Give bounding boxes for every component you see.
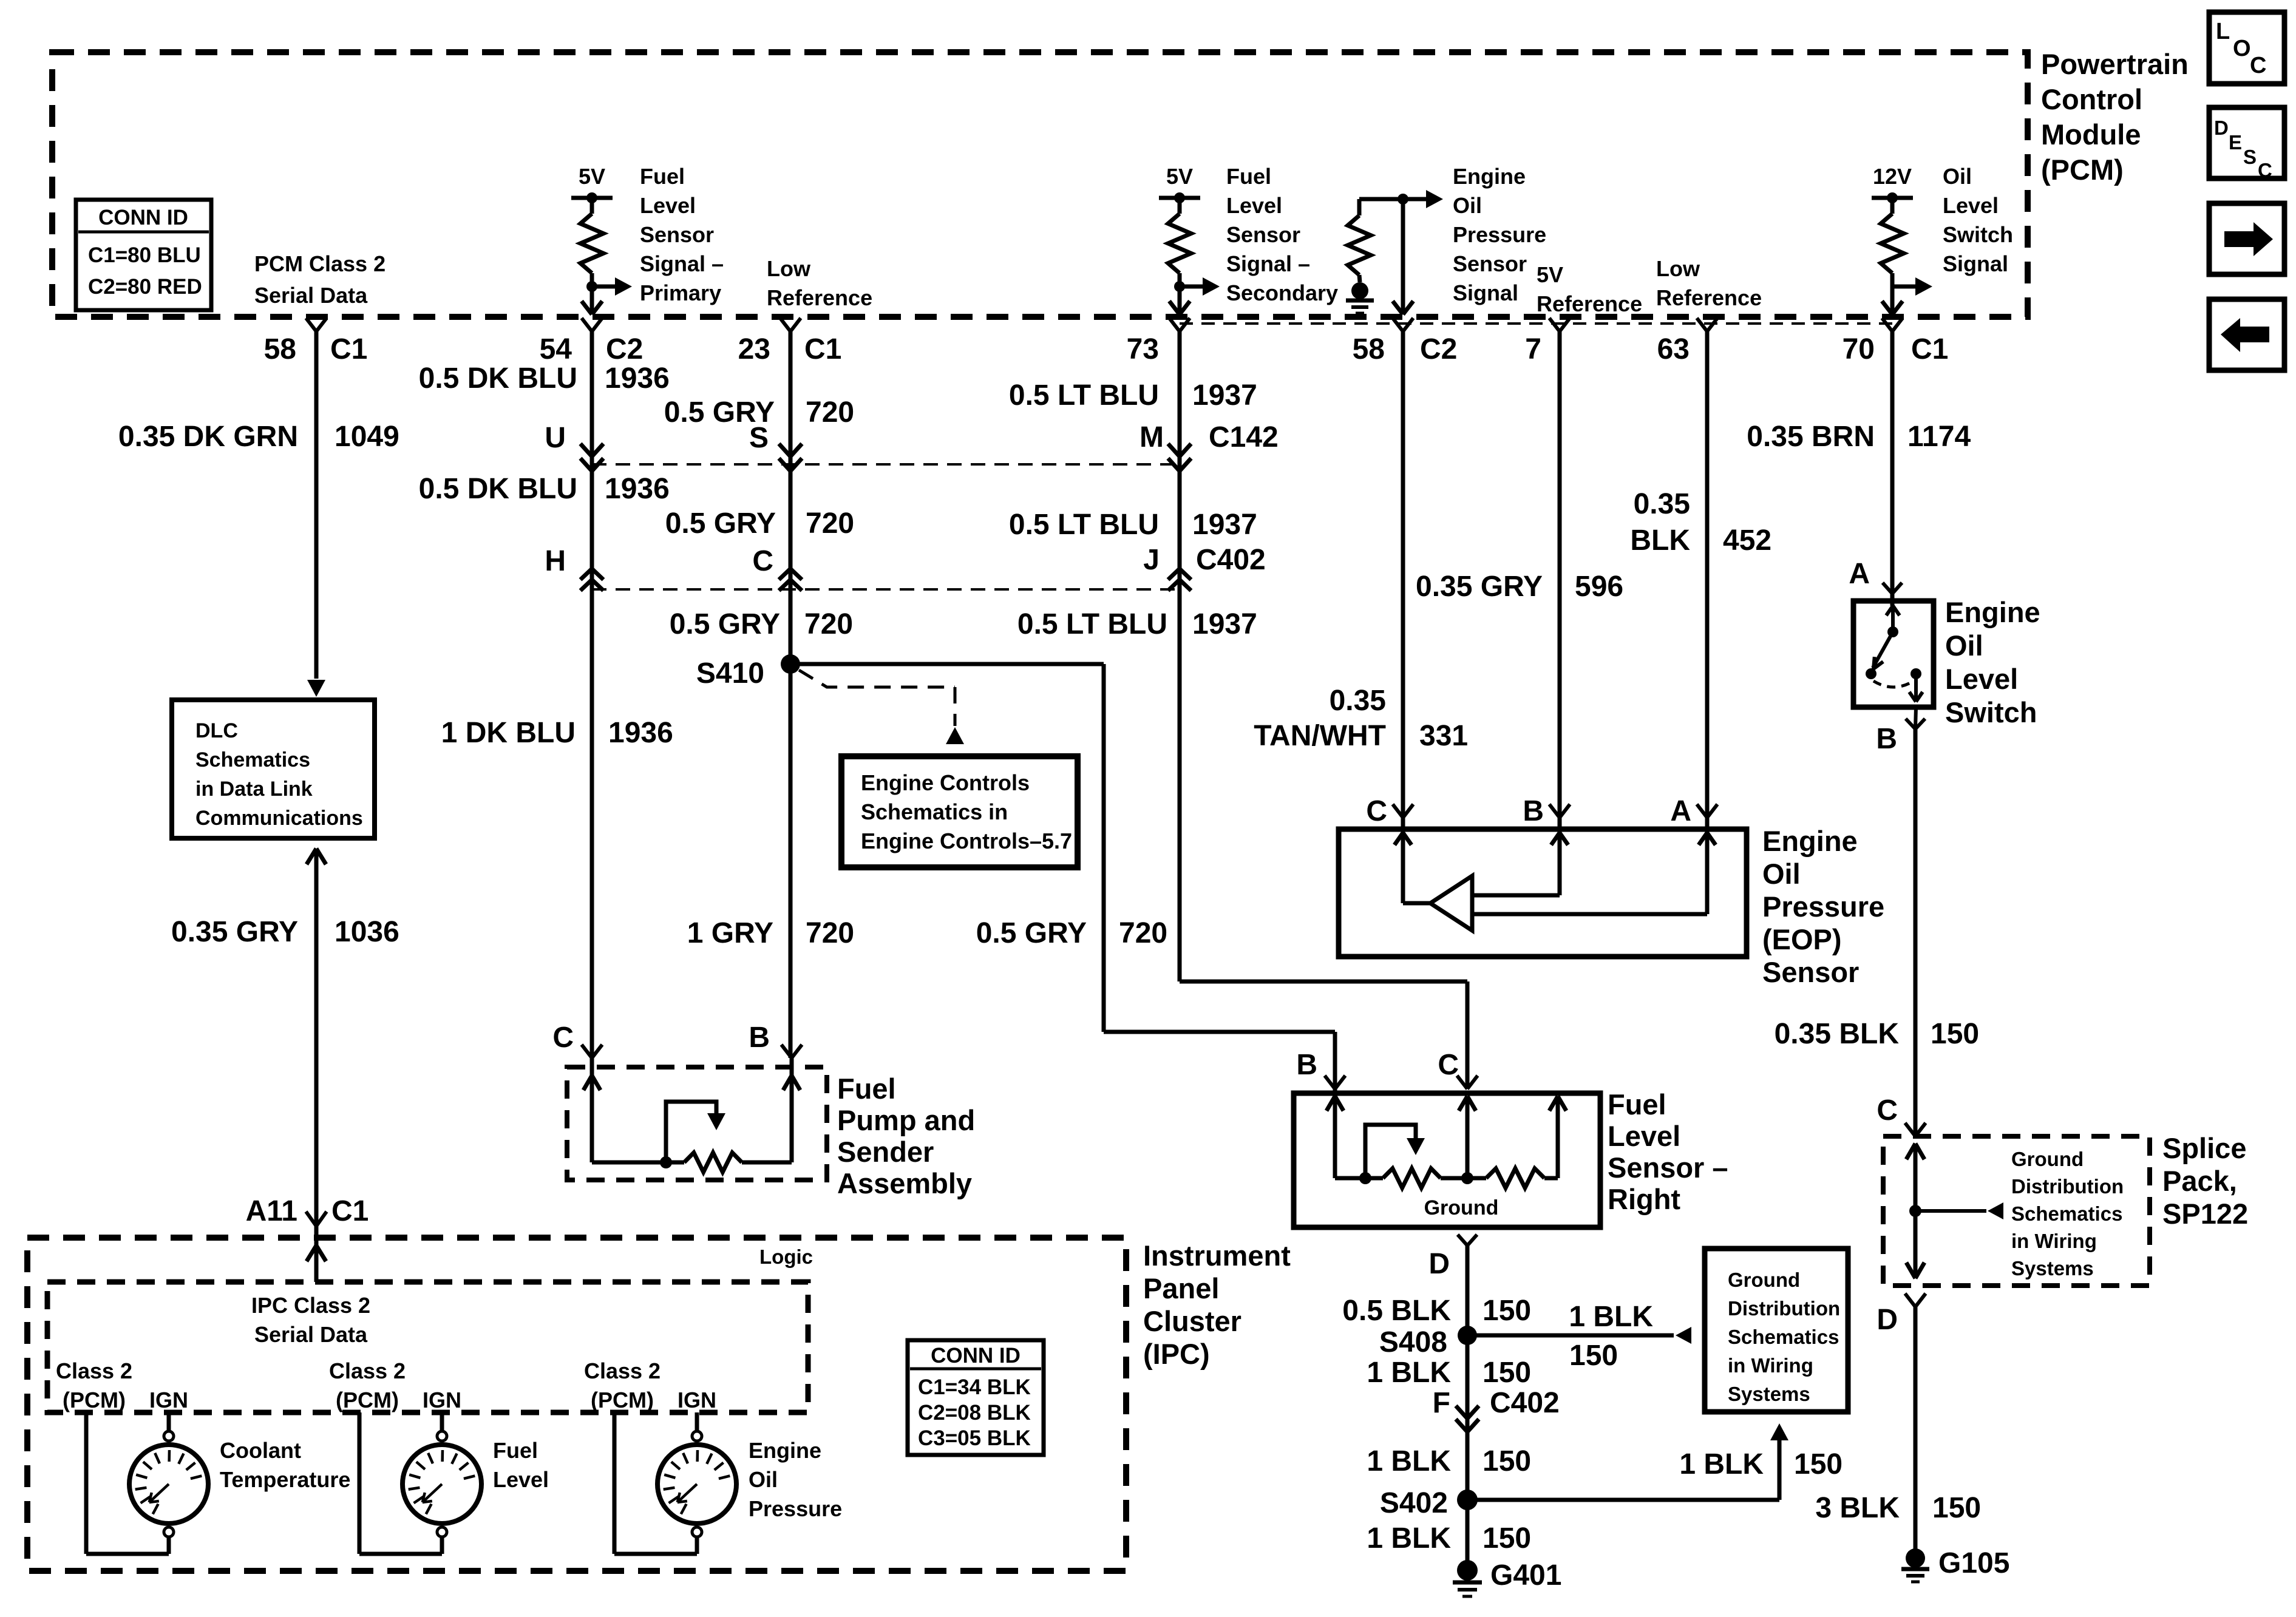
svg-text:596: 596 — [1575, 571, 1623, 603]
svg-text:(PCM): (PCM) — [336, 1388, 399, 1412]
svg-text:1937: 1937 — [1192, 379, 1257, 412]
svg-text:Sensor: Sensor — [1226, 222, 1300, 247]
svg-text:D: D — [2214, 117, 2229, 139]
svg-text:C: C — [552, 1022, 574, 1054]
svg-text:Module: Module — [2041, 118, 2141, 151]
svg-text:Sensor: Sensor — [640, 222, 714, 247]
svg-text:C1: C1 — [331, 1195, 369, 1227]
svg-text:150: 150 — [1483, 1522, 1531, 1554]
svg-text:C1=34 BLK: C1=34 BLK — [918, 1375, 1031, 1399]
svg-text:Pump and: Pump and — [837, 1104, 975, 1136]
svg-text:C: C — [1438, 1049, 1459, 1081]
svg-text:720: 720 — [804, 608, 853, 640]
svg-text:D: D — [1428, 1248, 1450, 1280]
svg-text:0.5 DK BLU: 0.5 DK BLU — [419, 362, 577, 395]
svg-text:1 BLK: 1 BLK — [1367, 1445, 1451, 1477]
svg-text:(PCM): (PCM) — [591, 1388, 654, 1412]
svg-text:1936: 1936 — [608, 717, 673, 749]
svg-text:Sensor: Sensor — [1453, 251, 1527, 276]
svg-text:Signal: Signal — [1943, 251, 2008, 276]
svg-text:G105: G105 — [1938, 1547, 2009, 1579]
svg-text:B: B — [1523, 795, 1544, 827]
svg-text:Class 2: Class 2 — [56, 1358, 132, 1383]
svg-text:Schematics: Schematics — [1728, 1326, 1839, 1348]
svg-text:Signal –: Signal – — [1226, 251, 1310, 276]
svg-text:5V: 5V — [1537, 262, 1563, 287]
svg-text:C2: C2 — [606, 333, 643, 365]
svg-text:331: 331 — [1419, 720, 1468, 752]
svg-text:Distribution: Distribution — [1728, 1297, 1840, 1320]
svg-text:Coolant: Coolant — [220, 1438, 301, 1463]
svg-text:Oil: Oil — [1453, 193, 1482, 218]
svg-text:0.35 GRY: 0.35 GRY — [1416, 571, 1543, 603]
svg-text:C: C — [2258, 159, 2272, 181]
svg-text:Engine Controls: Engine Controls — [861, 770, 1030, 795]
svg-text:1 BLK: 1 BLK — [1367, 1522, 1451, 1554]
svg-text:3 BLK: 3 BLK — [1815, 1492, 1900, 1524]
svg-text:720: 720 — [806, 917, 854, 949]
svg-text:1936: 1936 — [605, 362, 670, 395]
svg-text:BLK: BLK — [1630, 524, 1690, 557]
svg-text:IGN: IGN — [678, 1388, 716, 1412]
svg-text:Oil: Oil — [749, 1467, 778, 1492]
svg-text:in Data Link: in Data Link — [195, 778, 313, 801]
svg-text:Level: Level — [493, 1467, 549, 1492]
svg-text:23: 23 — [738, 333, 770, 365]
svg-text:E: E — [2229, 131, 2242, 154]
svg-text:150: 150 — [1483, 1295, 1531, 1327]
svg-text:Fuel: Fuel — [837, 1073, 896, 1105]
svg-text:Switch: Switch — [1945, 696, 2037, 728]
svg-text:0.5 BLK: 0.5 BLK — [1342, 1295, 1451, 1327]
svg-text:B: B — [1296, 1049, 1317, 1081]
svg-text:Level: Level — [1943, 193, 1999, 218]
svg-text:C402: C402 — [1490, 1387, 1560, 1419]
svg-text:0.5 GRY: 0.5 GRY — [665, 507, 776, 540]
svg-text:150: 150 — [1483, 1445, 1531, 1477]
svg-text:C2=80 RED: C2=80 RED — [88, 275, 202, 299]
svg-text:in Wiring: in Wiring — [1728, 1354, 1813, 1377]
svg-text:Instrument: Instrument — [1143, 1239, 1291, 1272]
svg-text:63: 63 — [1657, 333, 1690, 365]
svg-text:Serial Data: Serial Data — [254, 1322, 368, 1347]
svg-text:1174: 1174 — [1907, 421, 1971, 453]
svg-text:70: 70 — [1843, 333, 1875, 365]
svg-text:0.5 DK BLU: 0.5 DK BLU — [419, 473, 577, 505]
svg-text:7: 7 — [1525, 333, 1541, 365]
svg-text:Reference: Reference — [1656, 285, 1762, 310]
svg-text:1 GRY: 1 GRY — [687, 917, 773, 949]
svg-text:Splice: Splice — [2162, 1132, 2246, 1164]
svg-text:Fuel: Fuel — [493, 1438, 538, 1463]
svg-text:Right: Right — [1608, 1183, 1680, 1215]
svg-text:54: 54 — [540, 333, 572, 365]
svg-text:150: 150 — [1794, 1448, 1843, 1480]
svg-text:(PCM): (PCM) — [63, 1388, 126, 1412]
svg-text:D: D — [1877, 1304, 1898, 1336]
svg-text:C2=08 BLK: C2=08 BLK — [918, 1401, 1031, 1425]
svg-text:1 BLK: 1 BLK — [1569, 1301, 1653, 1333]
svg-text:0.35 BLK: 0.35 BLK — [1775, 1018, 1900, 1050]
svg-text:Pack,: Pack, — [2162, 1165, 2237, 1197]
svg-text:Pressure: Pressure — [1762, 890, 1884, 923]
svg-text:1937: 1937 — [1192, 608, 1257, 640]
svg-text:SP122: SP122 — [2162, 1198, 2248, 1230]
svg-text:Fuel: Fuel — [1226, 164, 1271, 189]
svg-text:S: S — [749, 422, 769, 454]
svg-text:0.5 LT BLU: 0.5 LT BLU — [1009, 509, 1159, 541]
svg-text:C2: C2 — [1420, 333, 1457, 365]
svg-text:1937: 1937 — [1192, 509, 1257, 541]
svg-text:0.5 LT BLU: 0.5 LT BLU — [1017, 608, 1167, 640]
svg-text:Distribution: Distribution — [2011, 1175, 2124, 1198]
svg-text:A: A — [1849, 558, 1870, 590]
svg-text:C1=80 BLU: C1=80 BLU — [88, 243, 201, 267]
svg-text:C1: C1 — [804, 333, 841, 365]
svg-text:1936: 1936 — [605, 473, 670, 505]
svg-text:Class 2: Class 2 — [584, 1358, 661, 1383]
svg-text:Signal –: Signal – — [640, 251, 724, 276]
svg-text:C142: C142 — [1209, 421, 1279, 453]
svg-text:Oil: Oil — [1945, 629, 1983, 662]
svg-text:Oil: Oil — [1762, 858, 1801, 890]
svg-text:Ground: Ground — [2011, 1148, 2084, 1170]
svg-text:Sensor –: Sensor – — [1608, 1151, 1728, 1184]
svg-text:CONN ID: CONN ID — [98, 206, 188, 229]
svg-text:Schematics: Schematics — [2011, 1202, 2122, 1225]
svg-text:150: 150 — [1932, 1492, 1981, 1524]
svg-text:Engine: Engine — [1453, 164, 1526, 189]
svg-text:Systems: Systems — [2011, 1257, 2094, 1280]
svg-text:H: H — [545, 545, 566, 577]
svg-text:Engine: Engine — [1945, 596, 2040, 628]
svg-text:C: C — [1877, 1094, 1898, 1127]
svg-text:DLC: DLC — [195, 719, 238, 742]
svg-text:F: F — [1433, 1387, 1450, 1419]
svg-text:Schematics: Schematics — [195, 748, 310, 771]
svg-text:M: M — [1140, 421, 1164, 453]
svg-text:58: 58 — [264, 333, 296, 365]
svg-text:0.35 DK GRN: 0.35 DK GRN — [118, 421, 298, 453]
svg-text:Signal: Signal — [1453, 280, 1518, 305]
svg-text:Control: Control — [2041, 83, 2142, 115]
svg-text:Pressure: Pressure — [1453, 222, 1546, 247]
svg-text:PCM Class 2: PCM Class 2 — [254, 251, 385, 276]
svg-text:Switch: Switch — [1943, 222, 2013, 247]
svg-text:A: A — [1670, 795, 1691, 827]
svg-text:12V: 12V — [1873, 164, 1912, 189]
svg-text:5V: 5V — [579, 164, 605, 189]
svg-text:Engine: Engine — [749, 1438, 821, 1463]
svg-text:C402: C402 — [1196, 544, 1266, 576]
svg-text:150: 150 — [1569, 1340, 1618, 1372]
svg-text:C1: C1 — [330, 333, 367, 365]
svg-text:CONN ID: CONN ID — [931, 1344, 1021, 1368]
svg-text:Engine Controls–5.7: Engine Controls–5.7 — [861, 829, 1072, 853]
svg-text:Secondary: Secondary — [1226, 280, 1338, 305]
svg-text:0.35: 0.35 — [1634, 488, 1690, 520]
svg-text:0.5 GRY: 0.5 GRY — [976, 917, 1087, 949]
svg-text:58: 58 — [1353, 333, 1385, 365]
svg-text:(IPC): (IPC) — [1143, 1338, 1210, 1370]
svg-text:0.35: 0.35 — [1330, 685, 1386, 717]
svg-text:Level: Level — [1226, 193, 1282, 218]
svg-text:0.35 BRN: 0.35 BRN — [1747, 421, 1875, 453]
svg-text:Assembly: Assembly — [837, 1167, 972, 1199]
svg-text:Level: Level — [1608, 1120, 1680, 1152]
svg-text:J: J — [1143, 544, 1160, 576]
svg-text:B: B — [749, 1022, 770, 1054]
svg-text:Engine: Engine — [1762, 825, 1858, 857]
svg-text:0.5 GRY: 0.5 GRY — [670, 608, 780, 640]
svg-text:TAN/WHT: TAN/WHT — [1254, 720, 1386, 752]
svg-text:Level: Level — [640, 193, 696, 218]
svg-text:O: O — [2233, 36, 2251, 61]
svg-text:720: 720 — [1119, 917, 1167, 949]
svg-text:0.35 GRY: 0.35 GRY — [171, 916, 298, 948]
svg-text:Communications: Communications — [195, 807, 363, 830]
svg-text:1 BLK: 1 BLK — [1367, 1357, 1451, 1389]
svg-text:Level: Level — [1945, 663, 2018, 695]
svg-text:S402: S402 — [1380, 1487, 1448, 1519]
svg-text:Panel: Panel — [1143, 1272, 1219, 1304]
svg-text:C: C — [1366, 795, 1387, 827]
svg-text:150: 150 — [1483, 1357, 1531, 1389]
svg-text:Schematics in: Schematics in — [861, 799, 1008, 824]
svg-text:G401: G401 — [1490, 1559, 1561, 1592]
svg-text:Fuel: Fuel — [640, 164, 685, 189]
svg-text:(PCM): (PCM) — [2041, 154, 2124, 186]
svg-text:73: 73 — [1127, 333, 1159, 365]
svg-text:452: 452 — [1723, 524, 1771, 557]
svg-text:Powertrain: Powertrain — [2041, 48, 2189, 80]
svg-text:Class 2: Class 2 — [329, 1358, 406, 1383]
svg-text:0.5 LT BLU: 0.5 LT BLU — [1009, 379, 1159, 412]
svg-text:1 DK BLU: 1 DK BLU — [441, 717, 576, 749]
svg-text:Temperature: Temperature — [220, 1467, 350, 1492]
svg-text:L: L — [2216, 19, 2230, 44]
svg-text:C1: C1 — [1911, 333, 1948, 365]
svg-text:720: 720 — [806, 507, 854, 540]
svg-text:IGN: IGN — [423, 1388, 461, 1412]
svg-text:Ground: Ground — [1728, 1269, 1800, 1291]
svg-text:Systems: Systems — [1728, 1383, 1810, 1405]
svg-text:Sender: Sender — [837, 1136, 934, 1168]
svg-text:S: S — [2243, 146, 2257, 168]
svg-text:IPC Class 2: IPC Class 2 — [251, 1293, 370, 1318]
svg-text:B: B — [1876, 723, 1897, 755]
svg-text:Low: Low — [1656, 256, 1700, 281]
svg-text:Sensor: Sensor — [1762, 956, 1859, 988]
svg-text:C3=05 BLK: C3=05 BLK — [918, 1426, 1031, 1450]
svg-text:Reference: Reference — [767, 285, 872, 310]
svg-text:(EOP): (EOP) — [1762, 923, 1842, 955]
svg-text:Oil: Oil — [1943, 164, 1972, 189]
svg-text:S408: S408 — [1379, 1326, 1447, 1358]
svg-text:Fuel: Fuel — [1608, 1088, 1666, 1120]
svg-text:S410: S410 — [696, 657, 764, 690]
svg-text:in Wiring: in Wiring — [2011, 1230, 2097, 1252]
svg-text:Reference: Reference — [1537, 291, 1642, 316]
svg-text:Primary: Primary — [640, 280, 721, 305]
svg-text:U: U — [545, 422, 566, 454]
svg-text:1036: 1036 — [335, 916, 399, 948]
svg-text:720: 720 — [806, 396, 854, 429]
svg-text:Logic: Logic — [759, 1246, 813, 1268]
svg-text:Cluster: Cluster — [1143, 1305, 1241, 1337]
svg-text:Ground: Ground — [1424, 1196, 1499, 1219]
svg-text:Serial Data: Serial Data — [254, 283, 368, 308]
svg-text:5V: 5V — [1166, 164, 1193, 189]
svg-text:C: C — [2250, 53, 2266, 78]
svg-text:Pressure: Pressure — [749, 1496, 842, 1521]
svg-text:1 BLK: 1 BLK — [1679, 1448, 1764, 1480]
svg-text:Low: Low — [767, 256, 811, 281]
svg-text:C: C — [752, 545, 773, 577]
svg-text:150: 150 — [1931, 1018, 1979, 1050]
svg-text:A11: A11 — [246, 1195, 297, 1227]
svg-text:IGN: IGN — [149, 1388, 188, 1412]
svg-text:1049: 1049 — [335, 421, 399, 453]
